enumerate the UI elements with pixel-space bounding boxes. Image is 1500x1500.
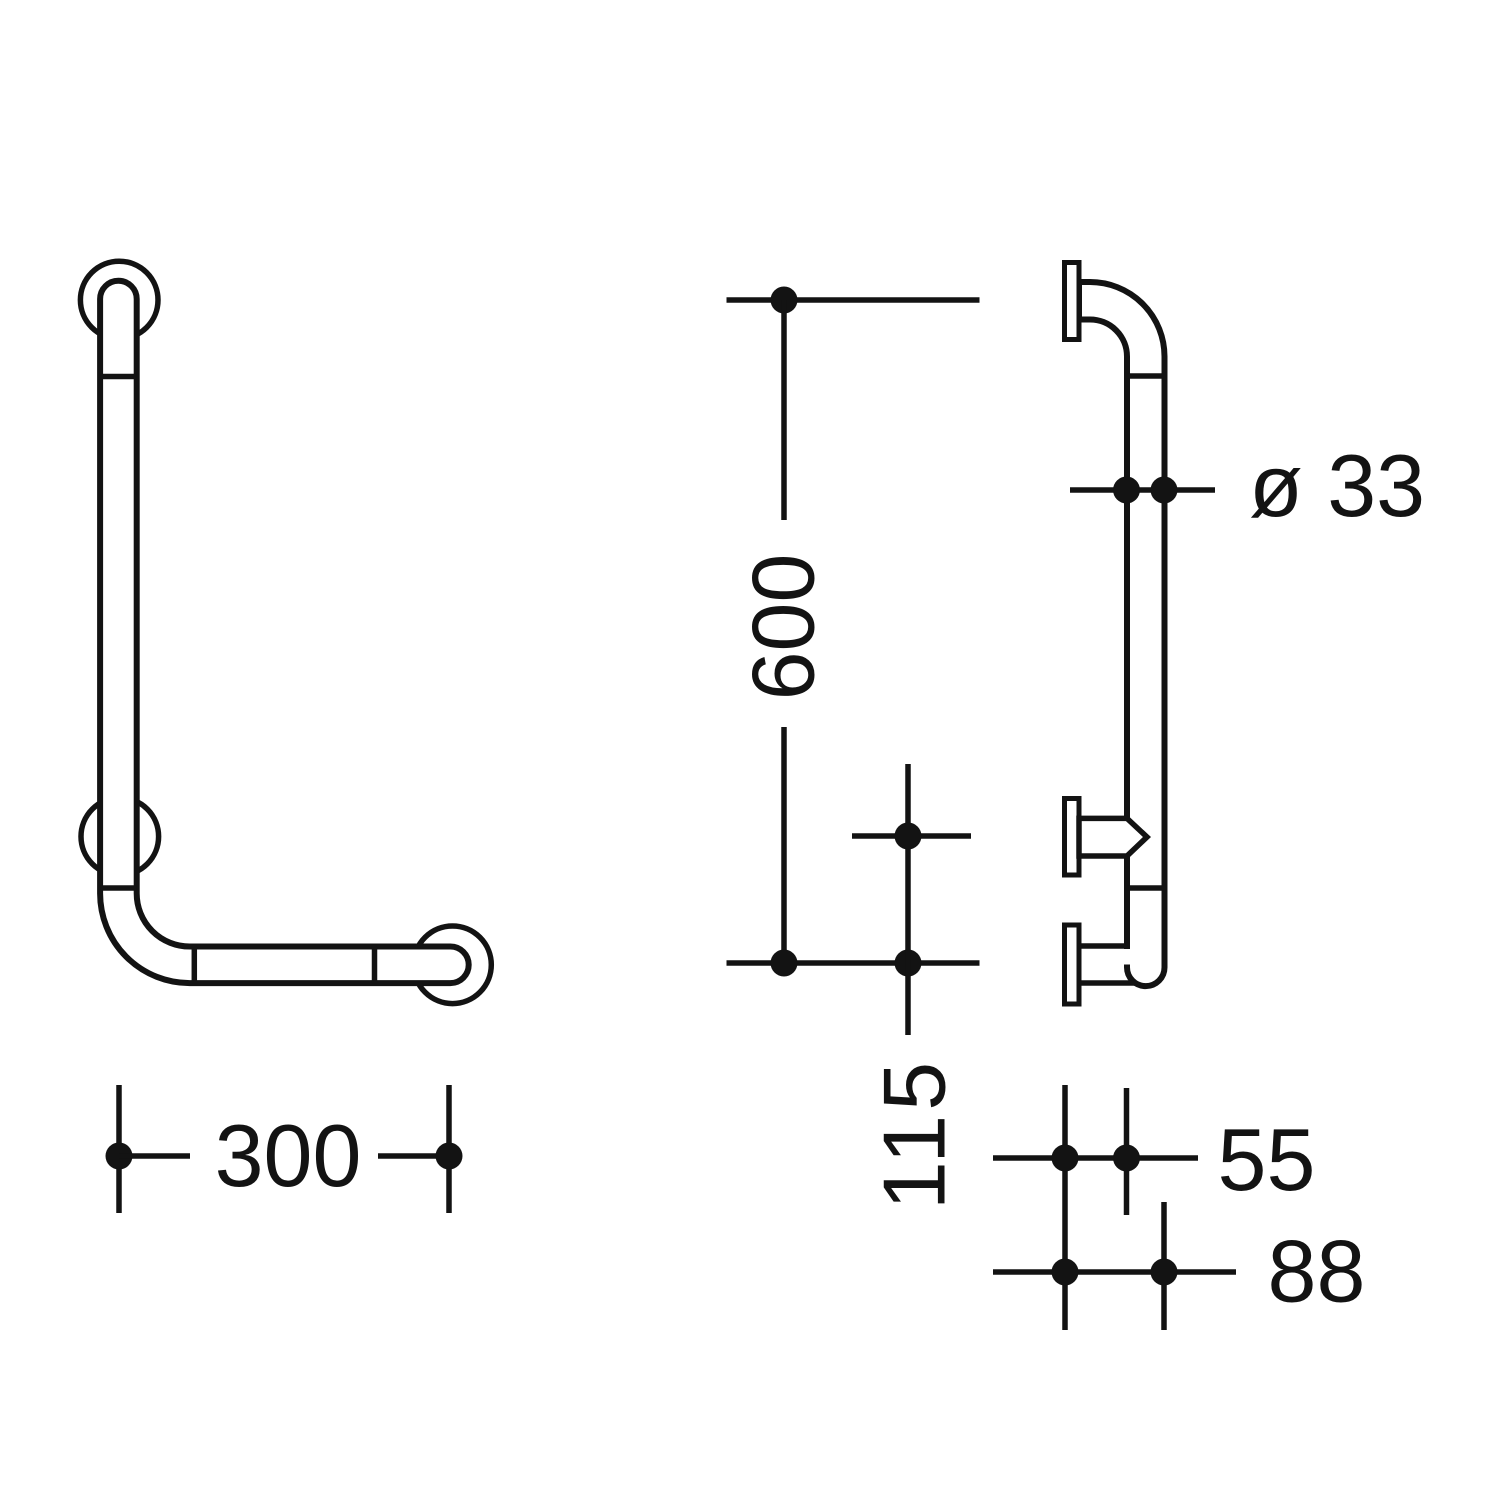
dim 88: dot right (1151, 1259, 1178, 1286)
svg-text:88: 88 (1268, 1222, 1366, 1321)
svg-text:55: 55 (1218, 1110, 1316, 1209)
side view: bottom leg top line (1079, 943, 1127, 949)
dim 55/88: vertical line A (1062, 1085, 1068, 1330)
side view: middle wall plate (1065, 799, 1080, 876)
dim 300: right dot (436, 1143, 463, 1170)
dim 115: vertical line (905, 764, 911, 1035)
front view: joint line above bend (100, 885, 137, 891)
dim ø33: dot right (1151, 477, 1178, 504)
dim 300: left cross vertical (116, 1085, 122, 1213)
side view: middle bracket arrow (1079, 818, 1147, 856)
svg-text:115: 115 (864, 1058, 963, 1210)
front view: L-shaped tube body (100, 281, 469, 983)
front view: joint line right of bend (192, 947, 198, 984)
dim 600: vertical line lower segment (781, 727, 787, 963)
front view: end wall flange (414, 926, 492, 1004)
dim 115: dot (895, 823, 922, 850)
svg-text:ø 33: ø 33 (1249, 436, 1425, 535)
dim 600: vertical line upper segment (781, 300, 787, 520)
dim 115: cross line horizontal (852, 833, 971, 839)
svg-text:300: 300 (215, 1106, 362, 1205)
front view: joint line near end cap (372, 947, 378, 984)
dim 55: dot left (1052, 1145, 1079, 1172)
dim 88: horizontal line (993, 1269, 1236, 1275)
dim 55: dot right (1113, 1145, 1140, 1172)
front view: joint line below top cap (100, 374, 137, 380)
dim 300: right cross vertical (446, 1085, 452, 1213)
side view: joint line below elbow (1127, 373, 1165, 379)
front view: middle wall flange (81, 798, 159, 876)
dim 55: horizontal line (993, 1155, 1198, 1161)
dim ø33: extension line (1070, 487, 1215, 493)
dim 88: vertical line C (1161, 1202, 1167, 1330)
dim 300: right horizontal segment (378, 1153, 449, 1159)
side view: erase tube edge behind bottom leg (1123, 949, 1130, 965)
dim 55: vertical line B (1124, 1088, 1130, 1215)
dim 600: bottom dot right (895, 950, 922, 977)
side view: top wall plate (1065, 263, 1080, 340)
side view: elbow and vertical tube (1079, 282, 1165, 986)
side view: bottom wall plate (1065, 925, 1080, 1004)
dim 88: dot left (1052, 1259, 1079, 1286)
dim 600: top dot (771, 287, 798, 314)
side view: joint line below bracket (1127, 885, 1165, 891)
svg-text:600: 600 (734, 554, 833, 701)
dim 300: left horizontal segment (119, 1153, 190, 1159)
dim 600: bottom extension line (727, 960, 980, 966)
dim 300: left dot (106, 1143, 133, 1170)
front view: top wall flange (80, 261, 158, 339)
dim 600: bottom dot left (771, 950, 798, 977)
dim 600: top extension line (727, 297, 980, 303)
side view: bottom leg bottom line (1079, 980, 1135, 986)
dim ø33: dot left (1113, 477, 1140, 504)
